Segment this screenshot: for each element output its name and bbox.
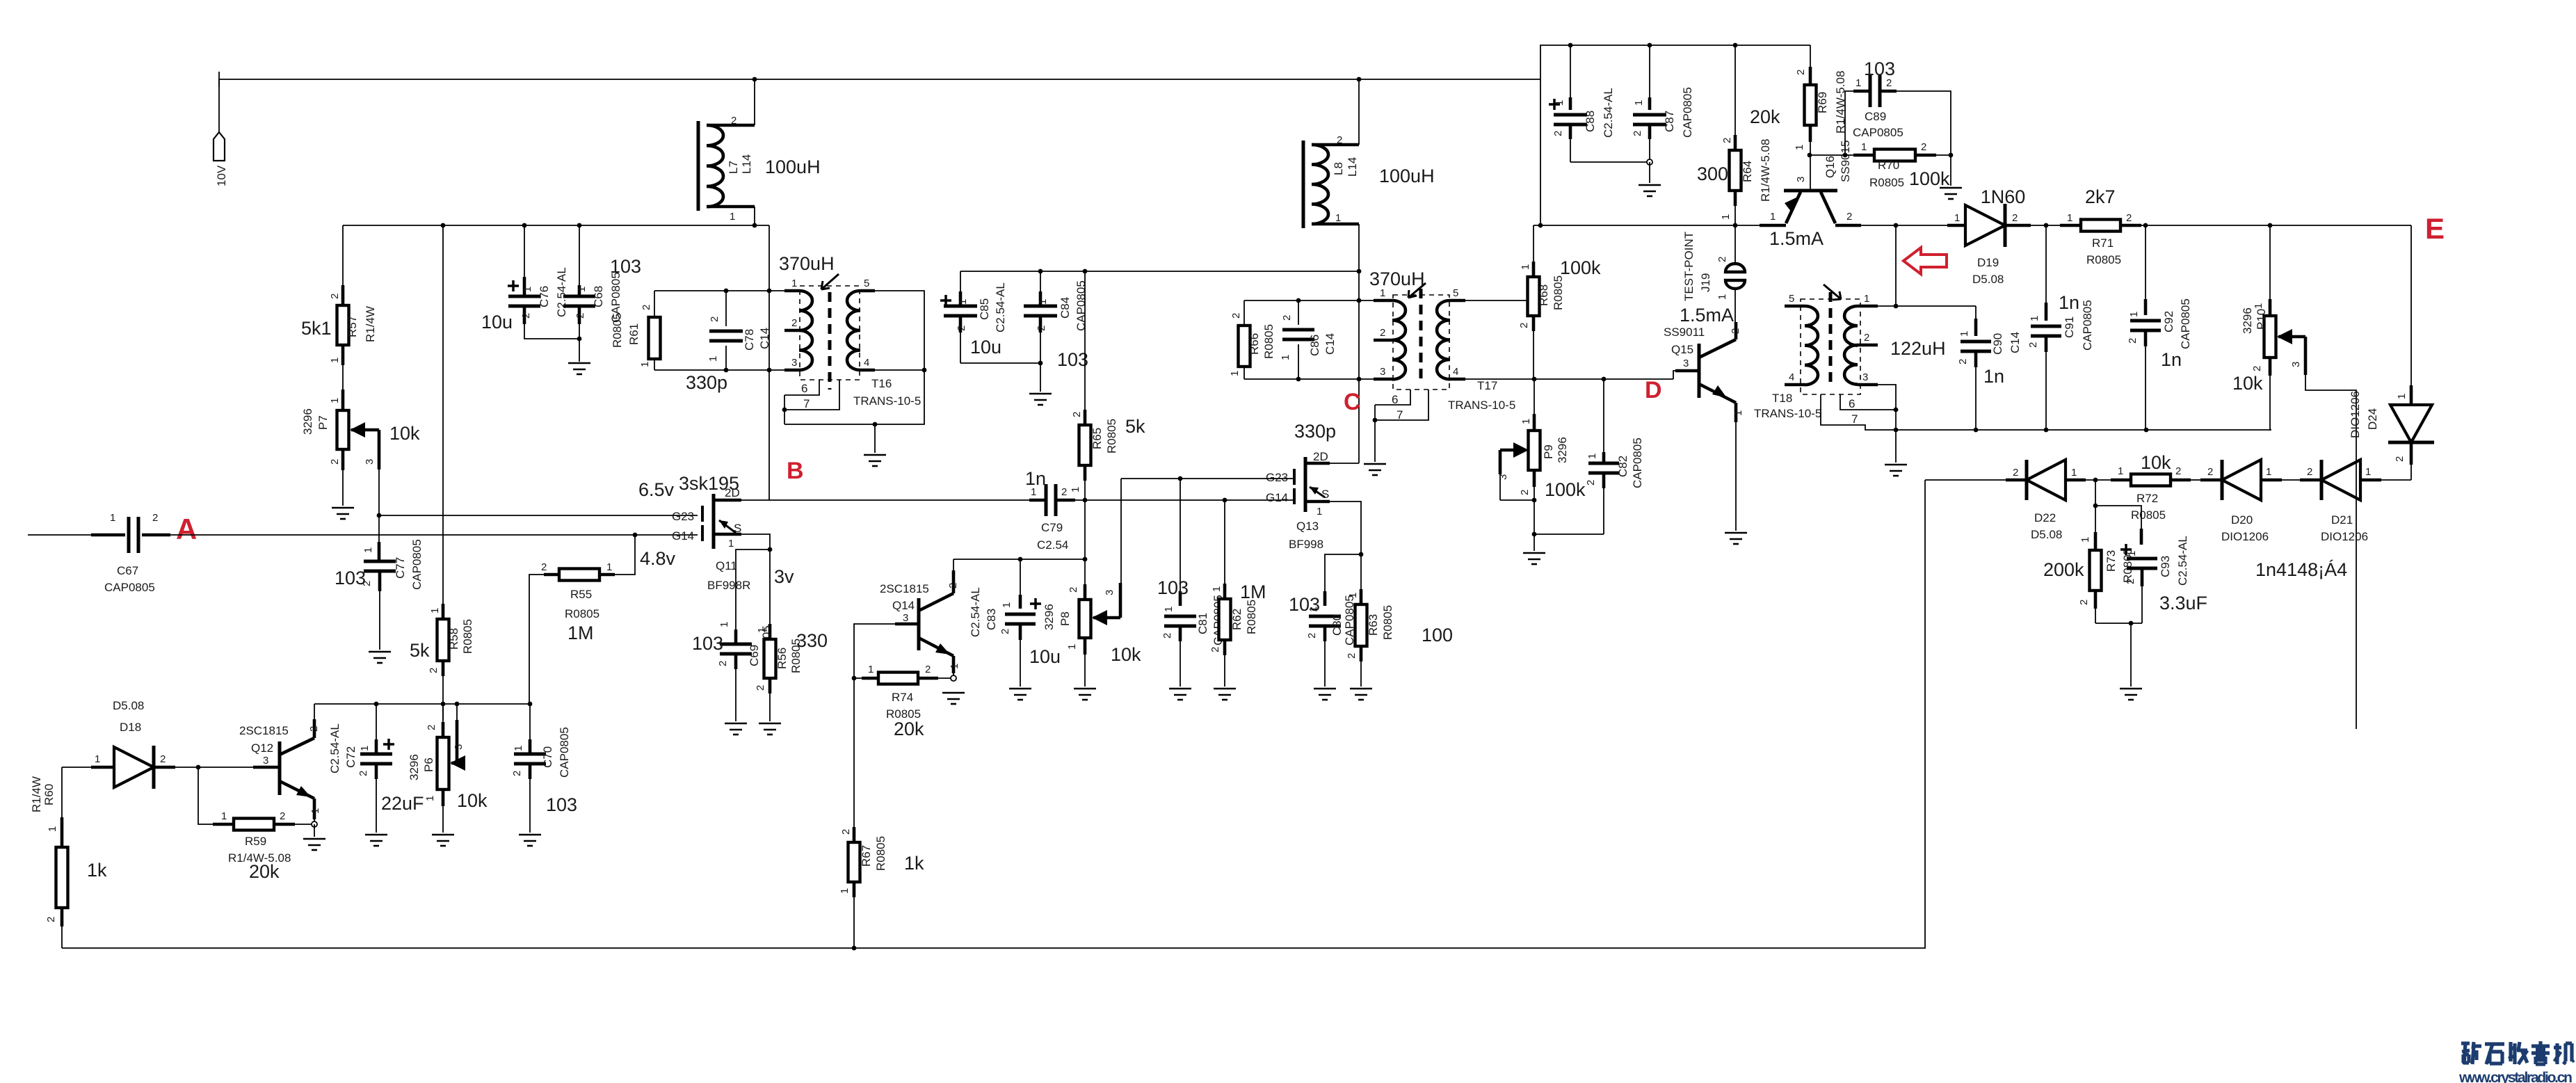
wire T18 pin6 bbox=[1840, 394, 1896, 410]
svg-text:A: A bbox=[176, 513, 197, 545]
svg-text:E: E bbox=[2425, 212, 2445, 245]
svg-text:2: 2 bbox=[1730, 328, 1741, 334]
diode D22 bbox=[2006, 460, 2086, 541]
svg-text:2: 2 bbox=[641, 305, 652, 310]
svg-text:R0805: R0805 bbox=[2086, 253, 2121, 266]
svg-text:3: 3 bbox=[1862, 371, 1868, 383]
wire C87 ground drop bbox=[1649, 162, 1650, 183]
svg-text:2: 2 bbox=[1071, 412, 1083, 417]
svg-text:2: 2 bbox=[1281, 315, 1293, 321]
wire R72 to D20 bbox=[2191, 479, 2200, 481]
diode D19 bbox=[1947, 186, 2031, 286]
node junction G23-C81 bbox=[1178, 476, 1183, 481]
node junction D22-R73 bbox=[2093, 478, 2098, 483]
node junction R67-bottom-rail bbox=[852, 946, 857, 951]
svg-text:100k: 100k bbox=[1560, 257, 1601, 278]
wire Q16 collector line bbox=[1861, 225, 1947, 226]
capacitor C67 bbox=[91, 512, 170, 594]
svg-text:1: 1 bbox=[2266, 466, 2271, 478]
svg-text:6: 6 bbox=[1849, 397, 1855, 410]
wire P8 wiper to Q13 G23 bbox=[1120, 479, 1122, 583]
svg-text:2: 2 bbox=[1068, 587, 1079, 593]
svg-text:R65: R65 bbox=[1090, 428, 1104, 449]
inductor L7 bbox=[698, 79, 821, 225]
svg-text:2: 2 bbox=[2127, 338, 2139, 344]
svg-text:3v: 3v bbox=[774, 566, 794, 587]
svg-text:1: 1 bbox=[1229, 371, 1241, 376]
svg-text:2: 2 bbox=[2394, 456, 2406, 462]
svg-text:2: 2 bbox=[541, 561, 547, 573]
capacitor C81 bbox=[1157, 479, 1225, 687]
svg-text:5k: 5k bbox=[1125, 416, 1145, 437]
svg-text:1M: 1M bbox=[1240, 581, 1266, 602]
label 4.8v bbox=[640, 548, 676, 569]
node junction C93 ground bbox=[2129, 621, 2134, 626]
node junction L8-secondary-rail bbox=[1357, 269, 1362, 274]
node junction riser-T16-pin3 bbox=[767, 368, 772, 373]
svg-text:10V: 10V bbox=[215, 165, 228, 186]
svg-text:CAP0805: CAP0805 bbox=[2081, 300, 2094, 351]
svg-text:4: 4 bbox=[1453, 366, 1458, 378]
svg-text:1.5mA: 1.5mA bbox=[1769, 228, 1824, 249]
svg-text:C88: C88 bbox=[1584, 111, 1597, 132]
node junction emitter-R64 bbox=[1733, 223, 1738, 228]
node junction line-D19-T18 bbox=[1894, 223, 1899, 228]
svg-text:1: 1 bbox=[2067, 212, 2072, 224]
svg-text:5: 5 bbox=[1789, 293, 1794, 305]
resistor R61 bbox=[611, 291, 661, 370]
wire R73-C93 bottom bbox=[2095, 623, 2142, 624]
svg-text:R59: R59 bbox=[245, 835, 266, 848]
node junction L8-T17-pin3 bbox=[1357, 377, 1362, 382]
test-point J19 bbox=[1682, 225, 1745, 322]
svg-text:2: 2 bbox=[160, 753, 166, 765]
capacitor C90 bbox=[1957, 306, 2022, 430]
node junction P9 bottom bbox=[1532, 532, 1537, 537]
svg-text:D20: D20 bbox=[2231, 513, 2253, 527]
capacitor C92 bbox=[2127, 225, 2192, 430]
capacitor C91 bbox=[2027, 225, 2094, 430]
resistor R68 bbox=[1518, 225, 1601, 379]
node junction line-C91 bbox=[2044, 223, 2049, 228]
node junction C84 bottom bbox=[1038, 361, 1043, 366]
svg-text:4: 4 bbox=[864, 357, 869, 369]
svg-text:1: 1 bbox=[1037, 299, 1049, 305]
svg-text:1n: 1n bbox=[1983, 366, 2004, 387]
svg-text:1: 1 bbox=[95, 753, 100, 765]
svg-text:R63: R63 bbox=[1367, 614, 1380, 636]
svg-text:3296: 3296 bbox=[1556, 437, 1569, 463]
svg-text:10k: 10k bbox=[457, 790, 488, 811]
svg-text:B: B bbox=[787, 458, 804, 484]
svg-text:1: 1 bbox=[1066, 644, 1078, 650]
ground below P9 bbox=[1523, 553, 1545, 564]
svg-text:1n4148¡Á4: 1n4148¡Á4 bbox=[2255, 559, 2347, 580]
potentiometer P7 bbox=[301, 390, 420, 506]
svg-text:1k: 1k bbox=[904, 853, 924, 874]
wire D19 to R71 bbox=[2031, 225, 2060, 226]
node junction line-C92 bbox=[2143, 223, 2148, 228]
svg-text:Q16: Q16 bbox=[1824, 156, 1837, 178]
svg-text:R64: R64 bbox=[1741, 161, 1754, 182]
svg-text:2: 2 bbox=[428, 668, 440, 673]
node junction line-P10 bbox=[2268, 223, 2273, 228]
svg-text:3: 3 bbox=[364, 459, 376, 465]
svg-text:C2.54-AL: C2.54-AL bbox=[994, 282, 1007, 332]
wire Q13 source down bbox=[1330, 502, 1361, 554]
svg-text:2D: 2D bbox=[1313, 450, 1328, 463]
svg-text:1: 1 bbox=[1861, 141, 1867, 153]
node junction rail2-C88 bbox=[1568, 43, 1573, 48]
node junction pin4-C82 bbox=[1602, 377, 1607, 382]
svg-text:1: 1 bbox=[707, 356, 719, 362]
svg-text:C92: C92 bbox=[2162, 311, 2175, 332]
svg-text:Q14: Q14 bbox=[892, 599, 915, 612]
svg-text:R0805: R0805 bbox=[1552, 275, 1565, 310]
svg-text:D5.08: D5.08 bbox=[2031, 528, 2062, 541]
svg-text:C85: C85 bbox=[978, 298, 991, 320]
capacitor C85 polarized bbox=[940, 271, 1007, 363]
svg-text:1: 1 bbox=[2253, 303, 2264, 309]
svg-text:1: 1 bbox=[522, 287, 533, 292]
wire D18 to R60 bbox=[61, 767, 63, 817]
svg-text:1: 1 bbox=[868, 664, 874, 675]
ground below R63 bbox=[1350, 689, 1372, 700]
svg-text:G14: G14 bbox=[672, 529, 694, 543]
svg-text:R74: R74 bbox=[892, 691, 913, 704]
svg-text:1k: 1k bbox=[87, 860, 107, 881]
transistor Q11 dual-gate MOSFET 3sk195 bbox=[672, 473, 750, 592]
wire rail-to-Q11-drain riser bbox=[768, 225, 770, 500]
ground below P7 bbox=[332, 508, 354, 519]
node junction C76-C68 bottom bbox=[577, 337, 582, 342]
ground below T18 bbox=[1885, 465, 1907, 476]
node junction source-C69-R56 bbox=[768, 547, 773, 552]
svg-text:TEST-POINT: TEST-POINT bbox=[1682, 232, 1696, 301]
svg-text:1: 1 bbox=[429, 608, 441, 613]
svg-text:2: 2 bbox=[1230, 313, 1242, 319]
wire T17 pin5 to R68 bbox=[1465, 300, 1528, 301]
svg-text:3: 3 bbox=[791, 357, 797, 369]
capacitor C70 bbox=[511, 704, 577, 833]
svg-text:2SC1815: 2SC1815 bbox=[239, 724, 289, 737]
svg-text:10u: 10u bbox=[970, 337, 1001, 358]
wire Q12 collector rail bbox=[314, 703, 530, 705]
ground below Q14 bbox=[942, 693, 965, 704]
svg-text:3: 3 bbox=[1380, 366, 1385, 378]
resistor R56 bbox=[755, 549, 828, 721]
svg-text:2: 2 bbox=[1519, 490, 1531, 495]
svg-text:T17: T17 bbox=[1477, 379, 1497, 392]
svg-text:R61: R61 bbox=[627, 323, 641, 345]
svg-text:2: 2 bbox=[1716, 257, 1728, 262]
node junction C78 top bbox=[724, 289, 729, 294]
svg-text:C80: C80 bbox=[1330, 614, 1344, 636]
capacitor C88 polarized bbox=[1549, 45, 1615, 162]
svg-text:2: 2 bbox=[2027, 342, 2039, 348]
node junction T18 pin1 bbox=[1894, 304, 1899, 309]
svg-text:1: 1 bbox=[424, 796, 436, 801]
node junction rail-R65 bbox=[1083, 269, 1088, 274]
svg-text:C79: C79 bbox=[1041, 521, 1063, 534]
svg-text:J19: J19 bbox=[1699, 273, 1712, 292]
svg-text:2: 2 bbox=[1585, 480, 1597, 486]
ground below C68 bbox=[568, 363, 590, 374]
svg-text:1.5mA: 1.5mA bbox=[1680, 305, 1734, 326]
svg-text:R1/4W: R1/4W bbox=[364, 306, 377, 342]
resistor R66 bbox=[1229, 300, 1275, 379]
svg-text:2: 2 bbox=[2207, 466, 2213, 478]
svg-text:C81: C81 bbox=[1196, 613, 1209, 634]
svg-text:DIO1206: DIO1206 bbox=[2349, 391, 2362, 438]
svg-text:1: 1 bbox=[957, 299, 969, 305]
capacitor C84 bbox=[1024, 271, 1088, 370]
svg-text:1: 1 bbox=[1001, 602, 1013, 608]
svg-text:R0805: R0805 bbox=[611, 313, 624, 348]
svg-text:C86: C86 bbox=[1308, 335, 1321, 356]
svg-text:22uF: 22uF bbox=[381, 793, 424, 814]
node junction C83 top bbox=[1018, 557, 1023, 562]
svg-text:1: 1 bbox=[1317, 506, 1322, 518]
svg-text:103: 103 bbox=[1864, 58, 1895, 79]
wire T16 ground drop bbox=[874, 424, 876, 453]
svg-text:C77: C77 bbox=[394, 557, 407, 579]
wire T17 pin4 line bbox=[1465, 378, 1673, 380]
svg-text:1M: 1M bbox=[567, 623, 594, 643]
wire T16 pin5 side bbox=[784, 291, 924, 424]
potentiometer P9 bbox=[1497, 379, 1586, 534]
svg-text:1: 1 bbox=[2126, 551, 2138, 556]
ground below C81 bbox=[1169, 689, 1191, 700]
svg-text:2: 2 bbox=[956, 326, 967, 331]
resistor R57 bbox=[301, 225, 377, 390]
svg-text:2: 2 bbox=[755, 685, 766, 691]
svg-text:SS9011: SS9011 bbox=[1664, 326, 1705, 339]
svg-text:3: 3 bbox=[1795, 177, 1807, 182]
svg-text:2: 2 bbox=[731, 115, 736, 127]
svg-text:1: 1 bbox=[1347, 593, 1359, 598]
svg-text:3: 3 bbox=[1497, 474, 1509, 480]
svg-text:1: 1 bbox=[359, 746, 371, 751]
svg-text:2: 2 bbox=[1552, 131, 1564, 136]
wire T17 ground drop bbox=[1374, 420, 1376, 462]
svg-text:D24: D24 bbox=[2366, 408, 2379, 430]
svg-text:5k1: 5k1 bbox=[301, 318, 332, 339]
transformer T17 bbox=[1369, 268, 1515, 422]
svg-text:100uH: 100uH bbox=[1379, 166, 1435, 186]
wire T18 ground drop bbox=[1895, 430, 1897, 463]
svg-text:Q13: Q13 bbox=[1296, 520, 1319, 533]
svg-text:370uH: 370uH bbox=[779, 253, 835, 274]
svg-text:C78: C78 bbox=[743, 329, 756, 351]
svg-text:2: 2 bbox=[1346, 653, 1358, 659]
diode D24 bbox=[2349, 225, 2434, 480]
svg-text:2: 2 bbox=[2012, 212, 2018, 224]
capacitor C83 polarized bbox=[969, 559, 1061, 687]
svg-text:2: 2 bbox=[426, 725, 437, 730]
wire Q11 source down bbox=[741, 534, 770, 549]
potentiometer P10 bbox=[2232, 225, 2305, 394]
svg-text:10k: 10k bbox=[389, 423, 420, 444]
inductor L8 bbox=[1303, 79, 1435, 463]
svg-text:1: 1 bbox=[1864, 293, 1869, 305]
svg-text:BF998R: BF998R bbox=[707, 579, 750, 592]
wire D22 node down bbox=[2095, 480, 2096, 506]
wire C88-C87 bottom bbox=[1570, 161, 1650, 163]
svg-text:1: 1 bbox=[110, 512, 115, 524]
svg-text:R70: R70 bbox=[1878, 159, 1899, 172]
transistor Q13 dual-gate MOSFET BF998 bbox=[1266, 450, 1330, 551]
wire tank2 bottom bbox=[1244, 378, 1374, 380]
node junction bus-C92 bbox=[2144, 428, 2149, 433]
svg-text:103: 103 bbox=[546, 794, 577, 815]
svg-text:C68: C68 bbox=[592, 286, 605, 307]
svg-text:1: 1 bbox=[1732, 410, 1744, 416]
svg-text:D22: D22 bbox=[2034, 511, 2056, 524]
svg-text:1: 1 bbox=[949, 664, 960, 669]
svg-text:20k: 20k bbox=[1750, 106, 1780, 127]
svg-text:1: 1 bbox=[1520, 264, 1531, 270]
wire T18 pin3 bbox=[1878, 385, 1896, 430]
svg-text:100k: 100k bbox=[1545, 479, 1586, 500]
ground below C72 bbox=[365, 835, 387, 846]
svg-text:CAP0805: CAP0805 bbox=[1681, 87, 1694, 138]
svg-text:R67: R67 bbox=[860, 845, 873, 867]
ground below P6 bbox=[432, 835, 454, 846]
svg-text:1N60: 1N60 bbox=[1981, 186, 2026, 207]
ground below Q12 bbox=[303, 839, 325, 850]
node junction C87 bottom bbox=[1647, 159, 1652, 165]
svg-text:1n: 1n bbox=[2059, 292, 2079, 313]
svg-text:2: 2 bbox=[511, 771, 523, 776]
svg-text:R0805: R0805 bbox=[1105, 419, 1118, 454]
wire D19 node to T18 pin1 bbox=[1895, 225, 1897, 306]
node junction rail-C72 bbox=[374, 702, 379, 707]
svg-text:R58: R58 bbox=[447, 628, 460, 650]
svg-text:Q11: Q11 bbox=[716, 559, 737, 572]
svg-text:R0805: R0805 bbox=[461, 619, 474, 654]
wire R71 to E corner bbox=[2141, 225, 2411, 226]
transformer T16 bbox=[779, 253, 921, 410]
node junction C84 rail bbox=[1038, 269, 1043, 274]
svg-text:2: 2 bbox=[1795, 70, 1807, 75]
svg-text:C90: C90 bbox=[1991, 333, 2004, 355]
svg-text:3: 3 bbox=[1104, 590, 1116, 595]
svg-text:1: 1 bbox=[839, 888, 851, 894]
svg-text:1: 1 bbox=[606, 561, 612, 573]
svg-text:1: 1 bbox=[1520, 419, 1532, 424]
svg-text:D5.08: D5.08 bbox=[1972, 273, 2004, 286]
capacitor C78 bbox=[686, 291, 771, 393]
svg-text:3296: 3296 bbox=[2241, 307, 2254, 334]
svg-text:1: 1 bbox=[47, 826, 58, 832]
ground below R62 bbox=[1214, 689, 1236, 700]
svg-text:1: 1 bbox=[2396, 394, 2408, 399]
svg-text:3: 3 bbox=[263, 755, 268, 767]
svg-text:DIO1206: DIO1206 bbox=[2221, 530, 2269, 543]
wire C82 bottom bbox=[1534, 534, 1604, 535]
wire P10 wiper route bbox=[2305, 375, 2356, 729]
svg-text:2: 2 bbox=[329, 459, 341, 465]
svg-text:2: 2 bbox=[357, 771, 369, 776]
node junction T16 pin4 bbox=[922, 368, 927, 373]
svg-text:R0805: R0805 bbox=[874, 836, 887, 871]
svg-text:R68: R68 bbox=[1537, 284, 1550, 306]
ground below C69 bbox=[725, 723, 747, 735]
svg-text:CAP0805: CAP0805 bbox=[1853, 126, 1903, 139]
svg-text:T18: T18 bbox=[1772, 392, 1792, 405]
svg-text:1: 1 bbox=[2079, 537, 2091, 543]
capacitor C72 polarized bbox=[328, 704, 424, 833]
wire T18 pin7 bbox=[1821, 394, 1896, 430]
svg-text:2: 2 bbox=[1846, 211, 1852, 223]
resistor R58 bbox=[410, 225, 474, 720]
node junction rail2-C87 bbox=[1648, 43, 1652, 48]
svg-text:C87: C87 bbox=[1663, 111, 1676, 132]
svg-text:200k: 200k bbox=[2043, 559, 2084, 580]
svg-text:R0805: R0805 bbox=[565, 607, 599, 620]
svg-text:2: 2 bbox=[2125, 579, 2136, 584]
svg-text:3296: 3296 bbox=[301, 408, 314, 435]
svg-text:122uH: 122uH bbox=[1890, 338, 1946, 359]
svg-text:1: 1 bbox=[1770, 211, 1776, 223]
svg-text:10k: 10k bbox=[2232, 373, 2263, 394]
wire bus up to P10 bbox=[2269, 376, 2271, 430]
svg-text:C2.54-AL: C2.54-AL bbox=[2176, 536, 2189, 586]
svg-text:1: 1 bbox=[1855, 77, 1861, 89]
node junction rail-P6 bbox=[441, 702, 446, 707]
svg-text:2: 2 bbox=[1061, 486, 1067, 498]
wire C93 ground drop bbox=[2130, 623, 2132, 687]
capacitor C89 bbox=[1845, 58, 1951, 155]
svg-text:1: 1 bbox=[2128, 312, 2140, 317]
svg-text:1: 1 bbox=[1211, 586, 1223, 592]
svg-text:2: 2 bbox=[329, 294, 341, 299]
svg-text:2: 2 bbox=[717, 661, 729, 666]
wire C85-C84 bottom bbox=[960, 362, 1040, 364]
svg-text:CAP0805: CAP0805 bbox=[104, 581, 155, 594]
svg-text:2: 2 bbox=[45, 917, 57, 922]
resistor R62 bbox=[1209, 500, 1266, 687]
wire rail jog to upper-right rail bbox=[1540, 45, 1810, 79]
svg-text:2: 2 bbox=[925, 664, 931, 675]
wire Q16 emitter line bbox=[1533, 225, 1760, 226]
svg-text:2: 2 bbox=[2175, 465, 2181, 477]
node junction C86 bottom bbox=[1296, 377, 1301, 382]
wire 10V-to-emitter-line riser bbox=[1540, 79, 1541, 225]
svg-text:R60: R60 bbox=[42, 784, 56, 805]
svg-text:C70: C70 bbox=[541, 746, 554, 768]
svg-text:D21: D21 bbox=[2331, 513, 2353, 527]
capacitor C79 bbox=[1025, 468, 1085, 552]
wire Q13 G23 line bbox=[1121, 478, 1294, 479]
svg-text:1: 1 bbox=[1163, 607, 1175, 612]
wire Q15 base link bbox=[1673, 371, 1675, 379]
svg-text:7: 7 bbox=[1851, 412, 1858, 426]
ground below C83 bbox=[1009, 689, 1031, 700]
svg-text:CAP0805: CAP0805 bbox=[558, 727, 571, 778]
svg-text:1: 1 bbox=[756, 627, 768, 633]
svg-text:C76: C76 bbox=[538, 286, 551, 307]
svg-text:R0805: R0805 bbox=[1381, 605, 1394, 640]
ground below C87 bbox=[1639, 185, 1661, 196]
wire bottom return rail bbox=[62, 480, 1925, 948]
power supply 10V symbol bbox=[214, 79, 228, 186]
svg-text:2: 2 bbox=[2126, 212, 2132, 224]
svg-text:2: 2 bbox=[1036, 326, 1047, 331]
svg-text:R0805: R0805 bbox=[1869, 176, 1904, 189]
svg-text:T16: T16 bbox=[871, 377, 892, 390]
